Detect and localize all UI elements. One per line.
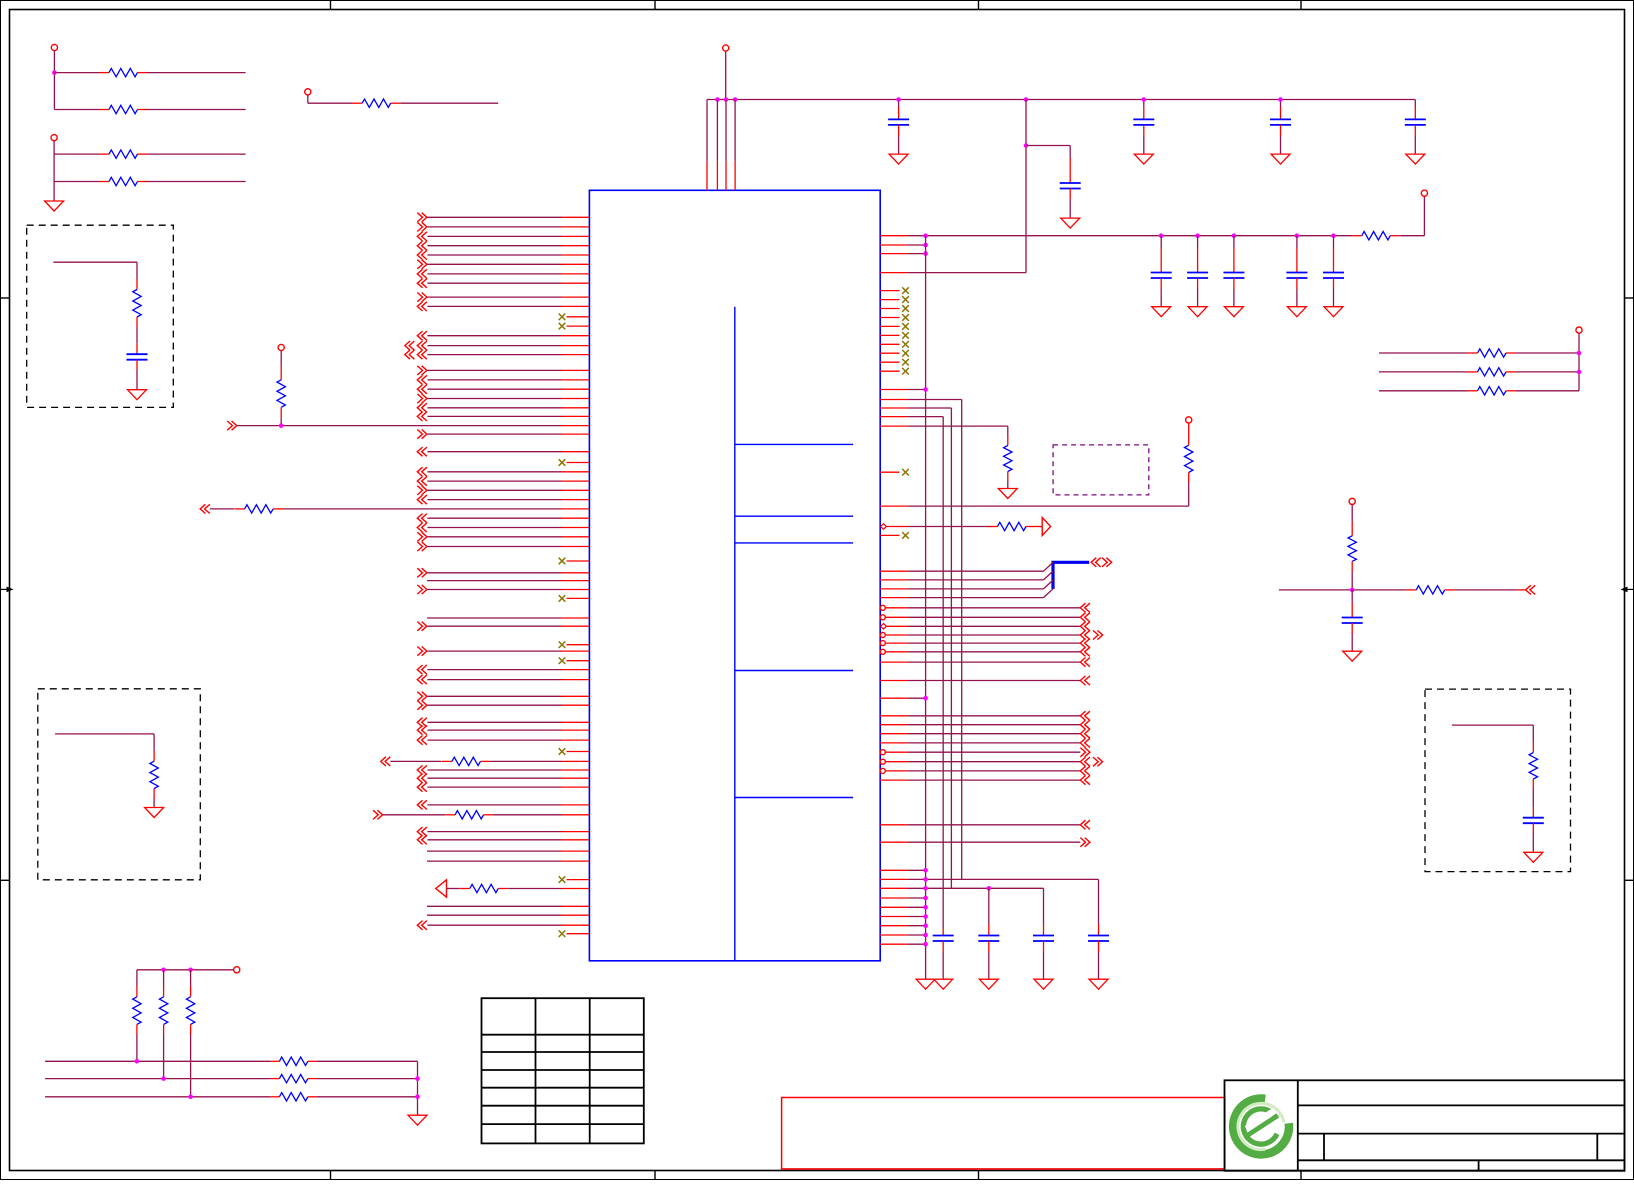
resistor R14	[200, 504, 589, 513]
wire rail2	[880, 235, 1352, 237]
ground G11	[1188, 307, 1207, 317]
capacitor C1	[127, 344, 148, 390]
resistor R11	[1185, 423, 1193, 482]
resistor R9	[1352, 232, 1400, 240]
resistor R15	[381, 757, 590, 766]
wire rail1	[707, 99, 1415, 101]
resistor R21	[1348, 522, 1356, 590]
capacitor C7	[1026, 146, 1081, 219]
U1 internal section dividers	[735, 307, 853, 961]
rail1 cap junctions	[896, 97, 1282, 102]
wire in box 3	[1452, 725, 1533, 742]
ground G16	[998, 489, 1017, 499]
capacitor C17	[1342, 590, 1363, 651]
capacitor C2	[1523, 807, 1544, 852]
wire J2 stem	[53, 141, 55, 154]
ground G18	[979, 979, 998, 989]
ground G10	[1152, 307, 1171, 317]
U1 pin wire j	[880, 696, 928, 701]
capacitor C16	[1088, 879, 1109, 979]
wire net D	[227, 421, 589, 430]
logo	[1233, 1098, 1290, 1155]
port P1	[1036, 518, 1051, 536]
wire net J	[415, 1061, 420, 1115]
U1 pin wire d	[880, 387, 928, 392]
connector J3 pin	[305, 89, 311, 95]
resistor R16	[373, 810, 589, 819]
revision table	[482, 998, 644, 1143]
port P2 resistor R17	[436, 880, 590, 897]
wire VSS vertical	[925, 236, 927, 980]
capacitor C11	[1286, 236, 1307, 307]
ground G17	[934, 979, 953, 989]
capacitor C15	[1033, 888, 1054, 979]
U1 top supply pins	[707, 100, 735, 191]
ground G13	[1287, 307, 1306, 317]
resistor R19	[1379, 368, 1579, 376]
ground G15	[916, 979, 935, 989]
resistor R12	[988, 522, 1037, 530]
connector J4 pin	[1186, 417, 1192, 423]
wire net H resistor R27	[45, 1074, 417, 1082]
ground G22	[408, 1115, 427, 1125]
connector J1 pin	[51, 44, 57, 50]
ground G2	[128, 390, 147, 400]
bus B1	[1053, 562, 1089, 589]
resistor R2	[54, 105, 245, 113]
ground G9	[1061, 218, 1080, 228]
U1 pin wire g	[880, 482, 1188, 506]
capacitor C3	[888, 100, 909, 155]
dashed option box 1	[27, 225, 174, 407]
U1 right port pin l	[880, 838, 1090, 847]
U1 right port pins group A	[880, 603, 1102, 685]
ground G3	[145, 808, 164, 818]
U1 no-connect i	[880, 532, 909, 539]
U1 pin wire e	[880, 426, 1008, 436]
U1 right port pins group B	[880, 711, 1102, 785]
note box	[782, 1098, 1225, 1169]
connector J7 pin	[1349, 498, 1355, 522]
ground G6	[1134, 154, 1153, 164]
ground G12	[1224, 307, 1243, 317]
capacitor C10	[1223, 236, 1244, 307]
U1 right no-connect pins	[880, 287, 909, 374]
wire net F	[137, 967, 240, 973]
resistor R4	[54, 154, 246, 186]
resistor R7	[150, 751, 158, 808]
U1 pin wire a	[880, 243, 928, 248]
ground G7	[1271, 154, 1290, 164]
dashed option box 3	[1425, 689, 1571, 872]
ground G20	[1089, 979, 1108, 989]
resistor R20	[1379, 387, 1579, 395]
capacitor C5	[1270, 100, 1291, 155]
U1 right port pin k	[880, 820, 1090, 829]
wire net B	[880, 408, 951, 888]
U1 bottom supply pins	[880, 868, 1098, 947]
rail2 junctions	[923, 233, 1335, 238]
connector J2 pin	[51, 135, 57, 141]
wire net G resistor R26	[45, 1057, 417, 1065]
ground G14	[1324, 307, 1343, 317]
resistor R8	[1529, 742, 1537, 807]
resistor R18	[1379, 349, 1579, 357]
resistor R24	[159, 970, 167, 1079]
ground G21	[1343, 651, 1362, 661]
ground G1	[45, 182, 64, 212]
wire in box 1	[53, 262, 137, 279]
resistor R3	[54, 150, 246, 158]
U1 pin wire h	[881, 524, 989, 530]
title block	[1225, 1080, 1625, 1171]
connector J5 pin	[278, 344, 284, 365]
capacitor C12	[1323, 236, 1344, 307]
bus entries	[880, 562, 1053, 597]
power pin VDD	[723, 45, 729, 100]
resistor R6	[133, 279, 141, 344]
wire J1 stem	[52, 51, 57, 110]
wire in box 2	[55, 734, 154, 751]
capacitor C6	[1405, 100, 1426, 155]
resistor R22	[1406, 585, 1535, 594]
rail1 junctions	[715, 97, 1028, 102]
op-amp U1 main IC body	[589, 190, 880, 961]
U1 pin wire b	[880, 251, 928, 256]
connector J6 pin	[1576, 327, 1582, 391]
wire J3	[308, 95, 353, 103]
resistor R5	[352, 99, 498, 107]
ground G19	[1034, 979, 1053, 989]
wire net I resistor R28	[45, 1093, 417, 1101]
U1 no-connect f	[880, 469, 909, 476]
wire rail1 branch down	[1024, 100, 1029, 273]
capacitor C14	[978, 888, 999, 979]
resistor R10	[1004, 436, 1012, 489]
capacitor C13	[933, 929, 954, 979]
U1 pin wire c	[880, 272, 1026, 274]
power pin AVDD	[1400, 190, 1427, 236]
resistor R13	[277, 366, 285, 426]
resistor R25	[186, 970, 194, 1097]
resistor R1	[54, 68, 245, 76]
capacitor C9	[1187, 236, 1208, 307]
capacitor C4	[1133, 100, 1154, 155]
resistor R23	[133, 970, 141, 1062]
capacitor C8	[1151, 236, 1172, 307]
wire net A	[880, 400, 962, 880]
wire net C	[880, 417, 943, 929]
bus port chevrons	[1091, 558, 1112, 567]
wire net E	[1279, 588, 1406, 593]
ground G5	[889, 154, 908, 164]
dashed option box 4	[1053, 445, 1149, 495]
dashed option box 2	[38, 689, 201, 880]
U1 left pins	[405, 213, 590, 937]
ground G4	[1524, 852, 1543, 862]
ground G8	[1406, 154, 1425, 164]
